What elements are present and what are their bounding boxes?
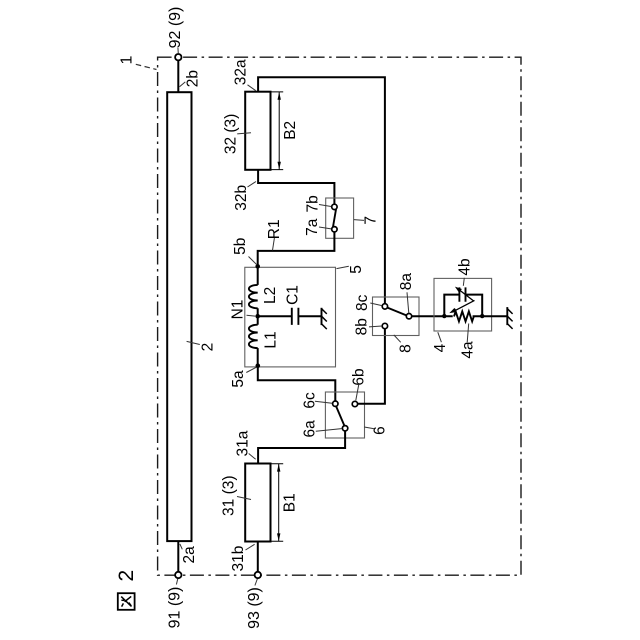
wire R1 from 7a to node 5b bbox=[258, 232, 335, 266]
node (left, box 4) bbox=[442, 314, 446, 318]
variable capacitor 4b plates bbox=[459, 287, 465, 301]
leader 2a bbox=[180, 544, 182, 549]
svg-text:7a: 7a bbox=[304, 218, 321, 236]
leader 92 bbox=[177, 48, 179, 54]
svg-text:R1: R1 bbox=[266, 219, 283, 239]
svg-text:31b: 31b bbox=[230, 546, 247, 572]
leader 2b bbox=[180, 82, 186, 87]
svg-text:8b: 8b bbox=[354, 318, 371, 335]
leader 5a bbox=[246, 367, 256, 372]
svg-text:32b: 32b bbox=[233, 185, 250, 211]
leader 2 bbox=[187, 341, 200, 344]
wire 32a to outer loop bbox=[258, 77, 385, 303]
leader 7a bbox=[319, 227, 331, 229]
leader 31a bbox=[249, 454, 256, 460]
feeding element 31 (3) bbox=[245, 464, 270, 542]
leader 6a bbox=[316, 429, 342, 432]
svg-text:6c: 6c bbox=[301, 392, 318, 409]
wire 5a to switch 6 contact 6c bbox=[258, 366, 336, 401]
wire L2 to N1 bbox=[257, 308, 259, 324]
switch 8 blade bbox=[387, 308, 406, 316]
inductor L1 bbox=[249, 325, 258, 348]
svg-text:93 (9): 93 (9) bbox=[246, 587, 263, 629]
svg-text:N1: N1 bbox=[230, 300, 247, 320]
svg-text:4a: 4a bbox=[460, 341, 477, 359]
svg-text:7b: 7b bbox=[305, 195, 322, 212]
variable resistor 4a arrow bbox=[449, 300, 474, 313]
parallel branch wire for 4b bbox=[444, 295, 482, 317]
wire 32b to switch 7 bbox=[258, 170, 334, 204]
feeding element 32 (3) bbox=[245, 92, 270, 170]
svg-text:5a: 5a bbox=[230, 370, 247, 388]
svg-text:32a: 32a bbox=[233, 59, 250, 85]
contact 8a bbox=[406, 314, 411, 319]
dimension B1 arrowhead down bbox=[277, 533, 280, 541]
contact 7b bbox=[332, 204, 337, 209]
switch 7 blade bbox=[333, 209, 336, 227]
switch 6 box bbox=[325, 392, 364, 438]
variable resistor 4a zigzag bbox=[454, 311, 474, 321]
leader 8b bbox=[369, 325, 382, 328]
switch 8 box bbox=[373, 297, 420, 336]
leader 32b bbox=[248, 182, 257, 188]
contact 8c bbox=[382, 304, 387, 309]
svg-text:6b: 6b bbox=[351, 368, 368, 385]
wire L1 to node 5a bbox=[257, 348, 259, 366]
contact 6c bbox=[333, 401, 338, 406]
svg-text:4b: 4b bbox=[456, 258, 473, 275]
contact 6b bbox=[352, 401, 357, 406]
svg-text:6: 6 bbox=[371, 426, 388, 435]
leader 5b bbox=[249, 257, 257, 265]
leader 8 bbox=[394, 335, 401, 342]
svg-text:91 (9): 91 (9) bbox=[167, 587, 184, 629]
dimension B2 arrow line bbox=[278, 92, 280, 169]
svg-text:2: 2 bbox=[115, 570, 138, 582]
terminal 92 (9) bbox=[175, 54, 181, 60]
dimension B1 arrow line bbox=[278, 464, 280, 541]
leader 6 bbox=[364, 427, 374, 429]
wire box 4 to ground bbox=[473, 315, 508, 317]
svg-text:31a: 31a bbox=[234, 430, 251, 456]
wire 8a to matching box 4 bbox=[412, 315, 453, 317]
figure title 図2 kanji glyph bbox=[118, 593, 135, 610]
leader 31b bbox=[246, 544, 255, 550]
leader 32a bbox=[248, 85, 256, 91]
svg-text:2a: 2a bbox=[181, 546, 198, 564]
wire 6a down to 31a bbox=[258, 431, 345, 464]
node 5a bbox=[255, 363, 260, 368]
ground (inside box 5) bbox=[322, 308, 327, 329]
ground (right of box 4) bbox=[507, 307, 512, 329]
node N1 bbox=[255, 314, 260, 319]
wire 31b stub bbox=[257, 542, 259, 572]
wire 2b stub bbox=[177, 60, 179, 92]
svg-text:8: 8 bbox=[397, 344, 414, 353]
leader 4 bbox=[438, 332, 442, 342]
dimension B1 extension ticks bbox=[271, 464, 284, 542]
leader N1 bbox=[247, 314, 256, 317]
svg-text:8a: 8a bbox=[398, 273, 415, 291]
contact 6a bbox=[342, 426, 347, 431]
node (right, box 4) bbox=[480, 314, 484, 318]
leader 4b bbox=[463, 278, 464, 286]
contact 8b bbox=[382, 323, 387, 328]
leader 4a bbox=[467, 324, 469, 343]
leader 6c bbox=[315, 401, 332, 403]
antenna element 2 bbox=[167, 92, 191, 541]
resonant circuit box 5 bbox=[245, 267, 336, 367]
capacitor C1 plates bbox=[292, 308, 299, 325]
svg-text:8c: 8c bbox=[354, 294, 371, 311]
leader 8a bbox=[407, 292, 409, 313]
leader for label 1 bbox=[136, 64, 157, 69]
svg-text:2b: 2b bbox=[184, 70, 201, 87]
inductor L2 bbox=[249, 285, 258, 308]
leader R1 bbox=[273, 238, 275, 250]
wire switch 8 contact 8b down to switch 6 contact 6b bbox=[358, 329, 385, 404]
wire 2a stub bbox=[177, 541, 179, 572]
svg-text:31 (3): 31 (3) bbox=[220, 475, 237, 516]
leader 93 bbox=[255, 579, 257, 586]
svg-text:7: 7 bbox=[362, 216, 379, 225]
leader 32 (3) bbox=[237, 133, 251, 134]
leader 7 bbox=[354, 219, 364, 222]
dimension B2 arrowhead up bbox=[278, 92, 281, 100]
enclosure dash-dot boundary 1 bbox=[158, 57, 521, 575]
leader 8c bbox=[370, 303, 382, 306]
svg-text:5b: 5b bbox=[232, 238, 249, 255]
leader 91 bbox=[176, 579, 177, 585]
leader 7b bbox=[319, 205, 331, 207]
svg-text:1: 1 bbox=[119, 55, 136, 64]
wire 5b to L2 bbox=[257, 266, 259, 285]
svg-text:5: 5 bbox=[348, 265, 365, 274]
dimension B1 arrowhead up bbox=[277, 464, 280, 472]
node 5b bbox=[255, 264, 260, 269]
switch 6 blade bbox=[336, 406, 344, 426]
contact 7a bbox=[332, 227, 337, 232]
dimension B2 arrowhead down bbox=[278, 162, 281, 170]
svg-text:2: 2 bbox=[200, 343, 217, 352]
svg-text:L2: L2 bbox=[262, 287, 279, 304]
matching circuit box 4 bbox=[434, 278, 492, 331]
leader 31 (3) bbox=[237, 497, 251, 500]
svg-text:L1: L1 bbox=[262, 331, 279, 348]
wire C1 to ground bbox=[298, 315, 321, 317]
wire N1 to C1 bbox=[258, 315, 292, 317]
svg-text:4: 4 bbox=[432, 343, 449, 352]
svg-text:92 (9): 92 (9) bbox=[167, 7, 184, 49]
svg-text:B2: B2 bbox=[282, 121, 299, 140]
variable capacitor 4b arrow bbox=[455, 287, 474, 301]
svg-text:C1: C1 bbox=[285, 285, 302, 305]
svg-text:6a: 6a bbox=[302, 420, 319, 438]
svg-text:B1: B1 bbox=[281, 493, 298, 512]
leader 6b bbox=[356, 385, 359, 401]
dimension B2 extension ticks bbox=[271, 92, 284, 170]
terminal 93 (9) bbox=[255, 572, 261, 578]
leader 5 bbox=[337, 266, 349, 268]
svg-text:32 (3): 32 (3) bbox=[223, 114, 240, 155]
terminal 91 (9) bbox=[175, 572, 181, 578]
switch 7 box bbox=[326, 198, 354, 238]
